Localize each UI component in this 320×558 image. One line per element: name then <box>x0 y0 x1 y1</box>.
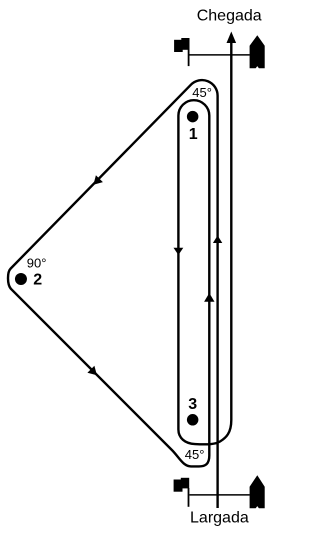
mark 2 buoy <box>15 273 27 285</box>
svg-text:Largada: Largada <box>190 510 249 527</box>
arrow up on windward leg (right side of loop) <box>204 293 214 302</box>
finish line <box>190 54 250 56</box>
svg-text:90°: 90° <box>27 255 47 270</box>
arrow up on start leg <box>213 236 222 244</box>
start pin pole <box>188 488 190 507</box>
wire course path: start leg, triangle legs 1-2-3, sausage legs and finish leg <box>8 42 231 508</box>
start pin flag <box>174 480 183 492</box>
mark 1 buoy <box>187 111 199 123</box>
svg-text:3: 3 <box>188 396 197 413</box>
arrow down-left on leg 1-2 <box>93 175 103 185</box>
finish committee boat <box>250 35 265 68</box>
arrow down on leeward leg (left side of loop) <box>174 248 184 255</box>
arrow finish (up) on finish leg <box>227 32 237 44</box>
svg-text:2: 2 <box>33 271 42 288</box>
finish pin pole <box>188 48 190 66</box>
arrow down-right on leg 2-3 <box>87 366 97 376</box>
svg-text:45°: 45° <box>192 85 212 100</box>
start line <box>190 494 250 496</box>
mark 3 buoy <box>187 414 199 426</box>
svg-text:1: 1 <box>189 126 198 143</box>
svg-text:Chegada: Chegada <box>197 7 262 24</box>
start committee boat <box>250 475 265 508</box>
finish pin flag <box>174 40 183 52</box>
svg-text:45°: 45° <box>185 447 205 462</box>
